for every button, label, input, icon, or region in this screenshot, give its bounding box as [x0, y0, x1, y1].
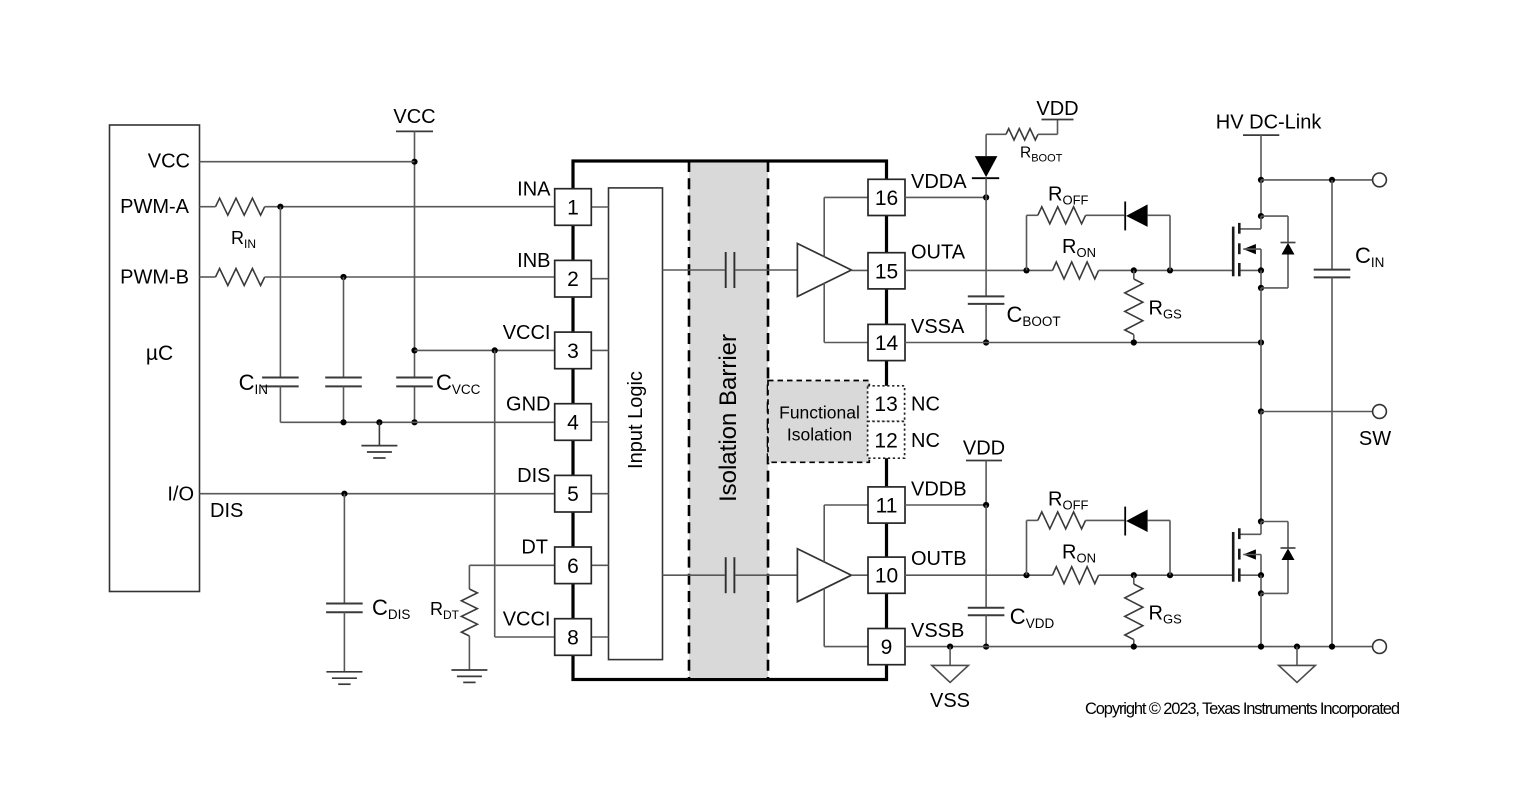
node VCC junction at uC VCC line — [411, 159, 417, 165]
pin 1 box — [555, 189, 592, 226]
svg-text:OUTA: OUTA — [911, 242, 966, 264]
wire OUTA from pin 15 — [905, 269, 1053, 271]
wire I/O DIS to pin 5 — [200, 493, 555, 495]
svg-text:INB: INB — [517, 250, 550, 272]
label RGS channel B — [1149, 603, 1183, 627]
label ROFF channel B — [1048, 489, 1089, 513]
svg-text:3: 3 — [567, 340, 579, 363]
pin 16 box — [868, 179, 905, 215]
capacitor CIN (HV bus) — [1314, 180, 1351, 647]
node VDDB junction — [983, 502, 989, 508]
wire VSSB bottom rail — [905, 646, 1373, 648]
node RGS-A to VSSA junction — [1131, 339, 1137, 345]
wire VSSA junction to SW node — [1260, 343, 1262, 412]
label VSSB — [911, 620, 964, 642]
label VSSA — [911, 316, 965, 338]
label CVDD — [1010, 604, 1055, 631]
svg-text:15: 15 — [875, 260, 898, 283]
resistor RIN (PWM-B) — [216, 269, 265, 286]
node CVDD to VSSB junction — [983, 644, 989, 650]
label RON channel B — [1062, 541, 1096, 565]
uC pin label I/O — [167, 484, 194, 506]
svg-text:RGS: RGS — [1149, 297, 1183, 321]
node Q2 source / body diode junction — [1258, 590, 1264, 596]
uC label — [146, 342, 173, 365]
gate driver IC U1 outline — [573, 161, 887, 680]
terminal circle HV- — [1373, 640, 1387, 654]
pin 14 box — [868, 324, 905, 360]
uC pin label VCC — [148, 151, 190, 173]
body diode of Q1 — [1261, 216, 1296, 288]
resistor RDT — [461, 589, 477, 636]
node gate B / ROFF return junction — [1167, 572, 1173, 578]
svg-text:14: 14 — [875, 332, 899, 355]
svg-text:1: 1 — [567, 197, 579, 220]
svg-text:µC: µC — [146, 342, 173, 365]
node PWM-A / CIN junction — [277, 204, 283, 210]
wire stub pin 6 to input logic — [591, 564, 608, 566]
transistor Q1 (high-side MOSFET) — [1233, 216, 1261, 276]
svg-text:VDD: VDD — [1036, 98, 1078, 120]
isolation barrier right dashed line — [767, 161, 770, 680]
node HV rail junction — [1258, 177, 1264, 183]
svg-text:VCCI: VCCI — [503, 322, 551, 344]
label VDDB — [911, 478, 967, 500]
node DIS / CDIS junction — [341, 491, 347, 497]
node Q1 drain junction — [1258, 213, 1264, 219]
node PWM-B / mid-cap junction — [340, 274, 346, 280]
terminal circle HV+ — [1373, 173, 1387, 187]
pin 5 box — [555, 475, 592, 512]
wire stub pin 2 to input logic — [591, 278, 608, 280]
isolation barrier shaded band — [689, 163, 768, 678]
VDD supply symbol (channel B) — [963, 438, 1005, 506]
label VCCI pin8 — [503, 608, 551, 630]
label DIS net — [210, 500, 243, 522]
node VSSA to switch-node rail junction — [1258, 339, 1264, 345]
node Q1 source / body diode junction — [1258, 285, 1264, 291]
svg-text:INA: INA — [517, 179, 551, 201]
wire driver A VSSA branch (pin 14) — [824, 283, 868, 343]
wire stub pin 3 to input logic — [591, 349, 608, 351]
resistor ROFF path (channel B) — [1027, 512, 1125, 575]
node CIN bottom junction — [1329, 644, 1335, 650]
wire VDDA to bootstrap diode — [905, 196, 986, 198]
node gate A / ROFF return junction — [1167, 267, 1173, 273]
bootstrap diode D1 — [972, 134, 999, 197]
ground symbol below CDIS — [326, 672, 362, 684]
svg-text:Isolation: Isolation — [787, 425, 852, 445]
ground symbol below RDT — [451, 670, 487, 682]
capacitor CBOOT — [968, 197, 1005, 342]
label OUTA — [911, 242, 966, 264]
functional isolation dashed box — [768, 381, 869, 463]
node gate A / RGS junction — [1131, 267, 1137, 273]
svg-text:GND: GND — [506, 393, 550, 415]
wire HV top rail to terminal — [1261, 179, 1373, 181]
svg-text:DIS: DIS — [517, 465, 550, 487]
svg-text:VDDA: VDDA — [911, 171, 967, 193]
label RIN — [231, 228, 256, 251]
wire SW node to Q2 drain — [1260, 412, 1262, 522]
node VDDA junction — [983, 194, 989, 200]
svg-text:RGS: RGS — [1149, 603, 1183, 627]
svg-text:11: 11 — [876, 495, 898, 518]
svg-text:10: 10 — [875, 565, 898, 588]
wire input logic to isolation cap A — [663, 269, 725, 271]
svg-text:CVDD: CVDD — [1010, 604, 1055, 631]
svg-text:4: 4 — [567, 412, 579, 435]
VDD supply symbol (channel A) — [1036, 98, 1078, 120]
VSS ground symbol — [932, 647, 969, 683]
svg-text:ROFF: ROFF — [1048, 183, 1089, 207]
label RBOOT — [1020, 145, 1063, 165]
svg-text:12: 12 — [874, 429, 897, 452]
HV DC-Link supply symbol — [1216, 112, 1323, 180]
svg-text:HV DC-Link: HV DC-Link — [1216, 112, 1323, 134]
svg-text:DT: DT — [521, 537, 548, 559]
wire input logic to isolation cap B — [663, 574, 725, 576]
uC pin label PWM-A — [120, 196, 190, 218]
svg-text:8: 8 — [567, 627, 579, 650]
svg-text:16: 16 — [875, 187, 898, 210]
node ground stub junction — [376, 419, 382, 425]
label NC pin12 — [911, 430, 940, 452]
pin 13 box (NC, dotted) — [868, 386, 905, 422]
svg-text:PWM-A: PWM-A — [120, 196, 190, 218]
capacitor CDIS — [326, 494, 363, 672]
wire Q2 source to VSSB rail — [1260, 593, 1262, 646]
wire SW rail to terminal — [1261, 411, 1373, 413]
svg-text:NC: NC — [911, 430, 940, 452]
svg-text:CVCC: CVCC — [436, 370, 481, 397]
microcontroller U2 (uC) block — [110, 125, 200, 592]
body diode of Q2 — [1261, 522, 1296, 594]
ground symbol (logic GND) — [361, 422, 397, 458]
svg-text:VDDB: VDDB — [911, 478, 967, 500]
label CVCC — [436, 370, 481, 397]
node chassis ground junction — [1294, 644, 1300, 650]
transistor Q2 (low-side MOSFET) — [1233, 522, 1261, 582]
node RGS-B to VSSB junction — [1131, 644, 1137, 650]
label Isolation Barrier — [715, 334, 742, 502]
wire isolation cap A to driver A — [735, 269, 797, 271]
wire stub pin 4 to input logic — [591, 421, 608, 423]
copyright notice — [1085, 700, 1400, 718]
svg-text:VDD: VDD — [963, 438, 1005, 460]
wire stub pin 1 to input logic — [591, 206, 608, 208]
node OUTB / ROFF-B junction — [1023, 572, 1029, 578]
svg-text:VSS: VSS — [930, 690, 970, 712]
wire VDDB from pin 11 — [905, 504, 986, 506]
svg-text:ROFF: ROFF — [1048, 489, 1089, 513]
label ROFF channel A — [1048, 183, 1089, 207]
wire driver B output to pin 10 — [851, 574, 868, 576]
svg-text:Input Logic: Input Logic — [625, 371, 647, 469]
svg-text:CIN: CIN — [1355, 243, 1384, 270]
svg-text:VCC: VCC — [148, 151, 190, 173]
terminal circle SW — [1373, 405, 1387, 419]
svg-text:Functional: Functional — [779, 403, 860, 423]
chassis ground symbol (power stage) — [1279, 647, 1316, 683]
svg-text:6: 6 — [567, 555, 579, 578]
wire RON-B to gate node — [1099, 574, 1233, 576]
pin 3 box — [555, 332, 592, 369]
wire VCCI to pin 3 — [415, 349, 555, 351]
pin 10 box — [868, 557, 905, 593]
node VCCI branch junction — [492, 347, 498, 353]
resistor RIN (PWM-A) — [216, 198, 265, 215]
input logic block — [609, 188, 663, 660]
svg-text:OUTB: OUTB — [911, 548, 967, 570]
pin 4 box — [555, 404, 592, 441]
label CDIS — [372, 595, 410, 622]
svg-text:PWM-B: PWM-B — [120, 267, 189, 289]
capacitor CIN (input filter) — [262, 207, 299, 423]
uC pin label PWM-B — [120, 267, 189, 289]
svg-text:VCC: VCC — [393, 106, 435, 128]
wire PWM-B segment — [200, 276, 216, 278]
isolation capacitor channel A — [726, 252, 735, 288]
resistor RGS (channel B) — [1125, 575, 1143, 646]
svg-text:9: 9 — [881, 636, 893, 659]
driver buffer A (triangle) — [797, 244, 851, 297]
svg-text:CDIS: CDIS — [372, 595, 410, 622]
label VDDA — [911, 171, 967, 193]
svg-text:RBOOT: RBOOT — [1020, 145, 1063, 165]
wire Q2 source down — [1260, 575, 1262, 593]
svg-text:CIN: CIN — [239, 370, 268, 397]
wire PWM-A segment — [200, 206, 216, 208]
wire Q1 source down — [1260, 270, 1262, 288]
label CIN (HV bus) — [1355, 243, 1384, 270]
node SW junction — [1258, 408, 1264, 414]
node Q2 source rail junction — [1258, 644, 1264, 650]
wire HV rail to Q1 drain — [1260, 180, 1262, 216]
node CBOOT to VSSA junction — [983, 339, 989, 345]
svg-text:Isolation Barrier: Isolation Barrier — [715, 334, 742, 502]
wire VCC vertical below Cvcc — [414, 386, 416, 422]
node mid-cap GND junction — [340, 419, 346, 425]
resistor ROFF path (channel A) — [1027, 207, 1125, 271]
svg-text:I/O: I/O — [167, 484, 194, 506]
wire driver A VDDA branch (pin 16) — [824, 197, 868, 257]
label RON channel A — [1062, 236, 1096, 260]
label CBOOT — [1007, 302, 1061, 329]
resistor RGS (channel A) — [1125, 270, 1143, 342]
pin 6 box — [555, 547, 592, 584]
svg-text:CBOOT: CBOOT — [1007, 302, 1061, 329]
pin 11 box — [868, 487, 905, 523]
label NC pin13 — [911, 394, 940, 416]
isolation barrier left dashed line — [688, 161, 691, 680]
pin 8 box — [555, 619, 592, 656]
wire GND rail to pin 4 — [280, 421, 554, 423]
label DIS pin5 — [517, 465, 550, 487]
label CIN — [239, 370, 268, 397]
pin 9 box — [868, 629, 905, 665]
wire Q1 source to VSSA junction — [1260, 288, 1262, 343]
wire PWM-A to pin 1 INA — [265, 206, 555, 208]
node Q2 drain junction — [1258, 518, 1264, 524]
node HV rail / CIN junction — [1329, 177, 1335, 183]
node OUTA / ROFF-A junction — [1023, 267, 1029, 273]
resistor RBOOT — [986, 120, 1057, 141]
node Q2 source junction — [1258, 572, 1264, 578]
svg-text:RDT: RDT — [430, 599, 460, 622]
node Cvcc to GND rail junction — [411, 419, 417, 425]
isolation capacitor channel B — [726, 557, 735, 593]
label VSS — [930, 690, 970, 712]
wire driver A output to pin 15 — [851, 269, 868, 271]
svg-text:SW: SW — [1359, 428, 1391, 450]
VCC supply symbol — [393, 106, 435, 378]
diode DOFF-B (anti-parallel with ROFF) — [1125, 507, 1170, 576]
resistor RON (channel B) — [1053, 567, 1099, 584]
capacitor CVDD — [968, 505, 1005, 647]
svg-text:5: 5 — [567, 483, 579, 506]
wire DT pin 6 to RDT — [469, 565, 554, 589]
wire OUTB from pin 10 — [905, 574, 1053, 576]
label Functional Isolation — [779, 403, 860, 445]
svg-text:VSSA: VSSA — [911, 316, 965, 338]
svg-text:RON: RON — [1062, 236, 1096, 260]
node gate B / RGS junction — [1131, 572, 1137, 578]
label Input Logic — [625, 371, 647, 469]
wire VCCI vertical branch to pin 8 — [495, 350, 555, 637]
label VCCI pin3 — [503, 322, 551, 344]
svg-text:RON: RON — [1062, 541, 1096, 565]
label OUTB — [911, 548, 967, 570]
label INB — [517, 250, 550, 272]
pin 2 box — [555, 260, 592, 297]
svg-text:VCCI: VCCI — [503, 608, 551, 630]
wire RON-A to gate node — [1099, 269, 1233, 271]
node VCC-VCCI junction — [411, 347, 417, 353]
label RGS channel A — [1149, 297, 1183, 321]
label SW — [1359, 428, 1391, 450]
svg-text:Copyright © 2023, Texas Instru: Copyright © 2023, Texas Instruments Inco… — [1085, 700, 1400, 718]
wire uC VCC to VCC rail — [200, 161, 415, 163]
capacitor CVCC plates — [396, 378, 433, 387]
svg-text:DIS: DIS — [210, 500, 243, 522]
capacitor on PWM-B line — [325, 277, 362, 422]
wire RDT to ground — [468, 636, 470, 670]
label INA — [517, 179, 551, 201]
pin 12 box (NC, dotted) — [868, 421, 905, 458]
wire PWM-B to pin 2 INB — [265, 276, 555, 278]
node VSS ground junction — [947, 644, 953, 650]
pin 15 box — [868, 253, 905, 289]
wire stub pin 5 to input logic — [591, 493, 608, 495]
driver buffer B (triangle) — [797, 549, 851, 602]
svg-text:NC: NC — [911, 394, 940, 416]
node Q1 source junction — [1258, 267, 1264, 273]
resistor RON (channel A) — [1053, 262, 1099, 279]
wire VSSA rail — [905, 342, 1261, 344]
svg-text:RIN: RIN — [231, 228, 256, 251]
svg-text:13: 13 — [874, 393, 897, 416]
label RDT — [430, 599, 460, 622]
wire stub pin 8 to input logic — [591, 636, 608, 638]
svg-text:VSSB: VSSB — [911, 620, 964, 642]
wire isolation cap B to driver B — [735, 574, 797, 576]
label GND — [506, 393, 550, 415]
diode DOFF-A (anti-parallel with ROFF) — [1125, 202, 1170, 271]
wire driver B VDDB branch (pin 11) — [824, 505, 868, 562]
label DT — [521, 537, 548, 559]
svg-text:2: 2 — [567, 268, 579, 291]
wire driver B VSSB branch (pin 9) — [824, 588, 868, 646]
